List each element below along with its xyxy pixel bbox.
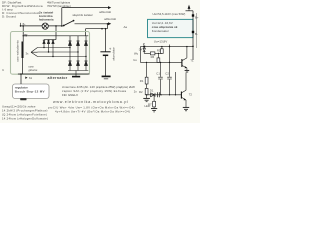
svg-text:Kondensator: Kondensator: [152, 29, 169, 33]
svg-text:Filtr GNELX: Filtr GNELX: [62, 93, 78, 97]
wire mid column: [175, 72, 177, 95]
legend text top-left: [2, 1, 43, 19]
transistor T2: [181, 73, 192, 107]
capacitor C2: [165, 45, 172, 95]
svg-text:Wy: Wy: [134, 51, 139, 55]
wire phase 2: [38, 51, 79, 53]
svg-text:akumulator: akumulator: [112, 47, 116, 60]
svg-text:T2: T2: [189, 93, 193, 97]
svg-text:61: 61: [29, 76, 33, 80]
node D+ drop: [55, 25, 57, 39]
annotation box teal: [148, 19, 194, 37]
svg-text:14.24how (zHalogenDuffowate): 14.24how (zHalogenDuffowate): [2, 117, 48, 121]
switch S1: [63, 20, 75, 27]
node W drop: [22, 25, 24, 36]
wire arrow to loads 1: [62, 6, 111, 9]
ground divider: [143, 98, 150, 101]
wire B+ rail right: [186, 5, 195, 60]
resistor R2: [139, 88, 148, 98]
excitation diodes D7 D8 D9: [43, 40, 54, 57]
wire H3 base row: [140, 62, 182, 63]
label uzw glowne: [29, 65, 38, 72]
capacitor C1: [156, 62, 163, 94]
svg-text:włącznik świateł: włącznik świateł: [73, 13, 93, 17]
svg-text:www.elektronika-motocyklowa.pl: www.elektronika-motocyklowa.pl: [53, 100, 129, 104]
svg-text:odbiorniki: odbiorniki: [99, 10, 111, 14]
wire phase 1: [38, 47, 71, 49]
svg-text:T1: T1: [190, 58, 194, 62]
wire H1 top bus: [140, 46, 193, 63]
transistor T1: [182, 46, 194, 70]
resistor R6: [150, 52, 159, 62]
wire H2 row: [144, 52, 162, 54]
wire rail 2: [196, 13, 198, 48]
node battery feed terminal: [20, 23, 26, 27]
wire regulator: [20, 74, 22, 84]
svg-text:Uo=13,8V: Uo=13,8V: [154, 39, 167, 43]
svg-text:Z: Z: [143, 42, 145, 46]
svg-text:R7: R7: [148, 102, 152, 106]
svg-text:Aa: Aa: [124, 25, 128, 29]
svg-text:Uw=54,5-110V (max 50W): Uw=54,5-110V (max 50W): [153, 12, 186, 16]
wire phase 3: [38, 56, 87, 58]
resistor R5: [157, 47, 163, 54]
note text bottom-center: [62, 85, 135, 97]
regulator box: [13, 84, 50, 99]
wire battery drop: [106, 24, 108, 52]
wire switch feeder: [61, 8, 63, 27]
svg-text:Uo: Uo: [133, 58, 137, 62]
label charge lamp: [39, 11, 54, 22]
ground R7: [151, 109, 157, 112]
wire H4 row: [147, 94, 182, 95]
connector under regulator: [20, 98, 26, 100]
note text top-center: [47, 1, 71, 9]
svg-text:B-: B-: [195, 32, 198, 36]
ground T2: [183, 107, 189, 110]
resistor R7: [148, 95, 156, 109]
svg-text:D1: D1: [150, 88, 154, 92]
note text bottom-middle: [48, 106, 135, 114]
wire bottom bus: [68, 71, 88, 77]
zener diode DZ: [143, 46, 146, 54]
wire B+ from alternator: [86, 28, 108, 36]
wire lamp row: [21, 25, 64, 27]
wire top bus: [23, 35, 88, 37]
ground T1: [185, 70, 190, 72]
svg-text:R2: R2: [139, 90, 143, 94]
rectifier bottom diodes D4 D5 D6: [69, 48, 88, 71]
diode D1: [150, 88, 155, 96]
divider rail: [146, 62, 148, 77]
alternator enclosure box: [11, 32, 90, 75]
svg-text:główne: główne: [29, 68, 38, 72]
svg-text:uzw. wzbudzenia: uzw. wzbudzenia: [15, 40, 19, 62]
svg-text:odbiorniki: odbiorniki: [104, 17, 116, 21]
wire ground bus: [18, 73, 90, 75]
svg-text:B+: B+: [195, 15, 199, 19]
junction dots phases: [43, 47, 86, 57]
svg-text:Bosch Bop-12 MV: Bosch Bop-12 MV: [15, 90, 45, 94]
battery BAT: [100, 47, 112, 76]
svg-text:4y+4,8dm Uw+T/-4V (Ow*/Oa Mz: 4y+4,8dm Uw+T/-4V (Ow*/Oa Mzln+Oa Wzi=+O…: [55, 110, 130, 114]
rectifier top diodes D1 D2 D3: [69, 36, 88, 57]
wire arrow to loads 2: [75, 22, 112, 25]
note text bottom-left: [2, 105, 48, 121]
field coil L1: [22, 36, 24, 74]
svg-text:alternator: alternator: [48, 76, 68, 80]
svg-text:W: W: [24, 33, 27, 37]
svg-text:C1: C1: [156, 71, 160, 75]
svg-text:ładowania: ładowania: [39, 18, 54, 22]
resistor R1: [140, 77, 148, 88]
lamp HL1: [42, 23, 48, 29]
stator star windings: [31, 48, 38, 57]
svg-text:D: Ground: D: Ground: [2, 14, 16, 18]
wire excitation bus: [44, 39, 56, 41]
svg-text:R1: R1: [140, 79, 144, 83]
capacitor C3 series: [157, 92, 159, 97]
svg-text:R6: R6: [151, 55, 155, 59]
ground battery: [102, 76, 111, 78]
svg-text:C2: C2: [165, 71, 169, 75]
label terminal 61: [25, 77, 27, 79]
